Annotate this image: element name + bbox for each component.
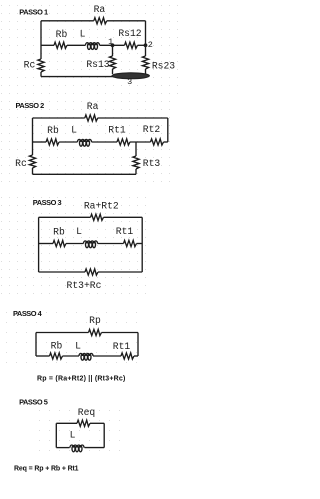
svg-text:Rb: Rb	[51, 341, 63, 352]
svg-text:Rp: Rp	[89, 315, 101, 326]
wire P2 bottom	[33, 173, 137, 175]
wire P3 mid d	[137, 243, 143, 245]
wire P1 bottom	[41, 76, 114, 78]
svg-text:L: L	[70, 430, 76, 441]
svg-text:Rc: Rc	[15, 158, 27, 169]
resistor Rs12	[125, 42, 138, 48]
resistor Rs13	[109, 56, 115, 69]
wire P1 mid c	[100, 44, 125, 46]
wire P3 bottom-right	[98, 271, 142, 273]
wire P1 top-left	[41, 20, 94, 22]
wire P2 mid c	[92, 141, 118, 143]
wire P3 top-left	[39, 216, 91, 218]
wire P5 bot b	[85, 447, 105, 449]
wire P5 top-right	[90, 422, 104, 424]
wire P4 left	[35, 333, 37, 357]
wire P1 right upper	[145, 21, 147, 46]
wire P2 Rt3 lower	[135, 169, 137, 174]
wire P5 bot a	[56, 447, 69, 449]
wire P2 top-left	[33, 117, 85, 119]
wire P3 left	[38, 217, 40, 272]
svg-text:Rt1: Rt1	[108, 125, 126, 136]
resistor Rp	[89, 329, 102, 335]
svg-text:PASSO 4: PASSO 4	[13, 309, 43, 318]
wire P3 right	[141, 217, 143, 272]
svg-text:PASSO 3: PASSO 3	[33, 198, 62, 207]
svg-text:Rb: Rb	[53, 227, 65, 238]
svg-text:PASSO 2: PASSO 2	[16, 101, 45, 110]
svg-text:Rs12: Rs12	[118, 28, 141, 39]
wire P3 bottom-left	[39, 271, 85, 273]
svg-text:Rt1: Rt1	[113, 341, 131, 352]
wire P2 left lower	[32, 168, 34, 174]
wire P5 top-left	[56, 422, 77, 424]
wire P1 right mid	[145, 45, 147, 56]
svg-text:Rt3+Rc: Rt3+Rc	[67, 280, 102, 291]
wire P2 mid e	[164, 141, 168, 143]
wire P4 bot c	[93, 355, 121, 357]
wire P4 top-left	[36, 332, 89, 334]
node 2 junction	[144, 43, 148, 47]
wire P1 mid d	[138, 44, 146, 46]
svg-text:Rt3: Rt3	[143, 158, 161, 169]
wire P3 mid c	[98, 243, 124, 245]
wire P2 mid d	[130, 141, 151, 143]
wire P1 right lower	[145, 69, 147, 74]
wire P1 node1 down	[112, 45, 114, 56]
wire P3 mid a	[39, 243, 53, 245]
svg-text:PASSO 5: PASSO 5	[19, 397, 48, 406]
svg-text:L: L	[75, 340, 81, 351]
resistor Rb (P2)	[46, 139, 59, 145]
wire P5 right	[103, 423, 105, 447]
resistor Rs23	[142, 56, 148, 69]
svg-text:2: 2	[148, 40, 153, 50]
svg-text:Ra: Ra	[87, 101, 99, 112]
node 1 junction	[111, 43, 115, 47]
resistor Rt1 (P2)	[117, 139, 130, 145]
node 3 plate (ellipse)	[112, 73, 149, 79]
svg-text:Rs23: Rs23	[152, 61, 175, 72]
wire P2 Rt3 upper	[135, 142, 137, 156]
wire P1 top-right	[107, 20, 146, 22]
svg-text:Rs13: Rs13	[86, 59, 109, 70]
resistor Rb (P3)	[53, 240, 66, 246]
wire P2 top-right	[98, 117, 168, 119]
resistor Ra+Rt2	[91, 214, 104, 220]
resistor Rt3 (P2)	[133, 156, 139, 169]
resistor Rb (P4)	[50, 353, 63, 359]
resistor Rt2 (P2)	[151, 139, 164, 145]
inductor L (P1)	[86, 43, 100, 50]
wire P2 mid b	[59, 141, 77, 143]
svg-text:Rt2: Rt2	[143, 124, 161, 135]
wire P4 bot a	[36, 355, 50, 357]
wire P1 Rs13 lower	[112, 69, 114, 74]
svg-text:Rt1: Rt1	[116, 226, 134, 237]
wire P4 right	[137, 333, 139, 357]
inductor L (P3)	[84, 241, 98, 248]
svg-text:Rb: Rb	[56, 29, 68, 40]
wire P2 left upper	[32, 118, 34, 155]
resistor Rt3+Rc	[85, 269, 98, 275]
resistor Ra	[94, 18, 107, 24]
svg-text:L: L	[76, 226, 82, 237]
svg-text:Req = Rp + Rb + Rt1: Req = Rp + Rb + Rt1	[14, 465, 79, 472]
svg-text:Rb: Rb	[47, 125, 59, 136]
wire P2 mid a	[33, 141, 47, 143]
wire P1 left upper	[40, 21, 42, 59]
svg-text:Req: Req	[78, 407, 95, 418]
inductor L (P5)	[70, 445, 84, 452]
inductor L (P2)	[78, 139, 92, 146]
svg-text:Rp = (Ra+Rt2) || (Rt3+Rc): Rp = (Ra+Rt2) || (Rt3+Rc)	[37, 375, 126, 382]
resistor Rc	[38, 59, 44, 72]
svg-text:Rc: Rc	[24, 60, 36, 71]
svg-text:Ra: Ra	[94, 4, 106, 15]
wire P1 left lower	[40, 72, 42, 77]
inductor L (P4)	[79, 353, 93, 360]
svg-text:Ra+Rt2: Ra+Rt2	[84, 200, 119, 211]
wire P2 right	[167, 118, 169, 142]
wire P5 left	[55, 423, 57, 447]
wire P4 bot d	[134, 355, 138, 357]
wire P1 mid a	[41, 44, 54, 46]
wire P1 mid b	[67, 44, 86, 46]
wire P4 top-right	[102, 332, 139, 334]
resistor Ra (P2)	[85, 115, 98, 121]
wire P3 mid b	[66, 243, 84, 245]
svg-text:L: L	[80, 29, 86, 40]
svg-text:L: L	[71, 125, 77, 136]
resistor Req	[77, 420, 90, 426]
svg-text:3: 3	[127, 77, 132, 87]
resistor Rb	[54, 42, 67, 48]
svg-text:PASSO 1: PASSO 1	[19, 7, 48, 16]
resistor Rc (P2)	[29, 155, 35, 168]
wire P4 bot b	[63, 355, 80, 357]
wire P3 top-right	[104, 216, 143, 218]
resistor Rt1 (P3)	[124, 240, 137, 246]
resistor Rt1 (P4)	[121, 353, 134, 359]
